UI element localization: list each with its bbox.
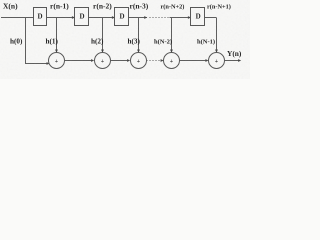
delay block D2 (75, 8, 89, 26)
arrowhead mid-wire before dots (144, 16, 147, 19)
arrowhead output Y(n) (238, 59, 241, 62)
adder A2 (95, 53, 111, 69)
wire adder4 to adder5 (179, 60, 207, 62)
arrowhead into adder2 left (91, 59, 94, 62)
arrowhead into D3 (112, 16, 115, 19)
wire tap 1 vertical h(0) elbow (26, 18, 48, 64)
arrowhead tap5 into adder4 (170, 50, 173, 53)
arrowhead tap4 into adder3 (137, 50, 140, 53)
wire adder3 to adder4 dotted (147, 60, 161, 62)
wire adder1 to adder2 (64, 60, 93, 62)
wire tap 2 vertical (56, 18, 58, 53)
arrowhead tap3 into adder2 (101, 50, 104, 53)
adder A4 (164, 53, 180, 69)
arrowhead tap2 into adder1 (55, 50, 58, 53)
wire tap 5 vertical (171, 18, 173, 53)
wire top right segment (170, 17, 217, 19)
wire adder2 to adder3 (110, 60, 129, 62)
delay block D4 (191, 8, 205, 26)
wire adder5 to output Y(n) (224, 60, 239, 62)
delay block D1 (34, 8, 47, 26)
arrowhead into adder5 left (205, 59, 208, 62)
scan grain overlay (0, 0, 250, 79)
adder A5 (209, 53, 225, 69)
arrowhead into D2 (72, 16, 75, 19)
wire top main solid segment (1, 17, 147, 19)
wire tap 3 vertical (102, 18, 104, 53)
wire elbow down to last adder (216, 18, 218, 53)
delay block D3 (115, 8, 129, 26)
wire arrow into adder4 (161, 60, 163, 62)
adder A3 (131, 53, 147, 69)
arrowhead into adder4 left (161, 59, 164, 62)
wire tap 4 vertical (138, 18, 140, 53)
arrowhead h(0) elbow into adder1 (47, 62, 50, 65)
arrowhead into adder3 left (127, 59, 130, 62)
arrowhead into D4 (188, 16, 191, 19)
arrowhead elbow into adder5 (215, 50, 218, 53)
adder A1 (49, 53, 65, 69)
wire top dotted continuation (150, 17, 170, 19)
